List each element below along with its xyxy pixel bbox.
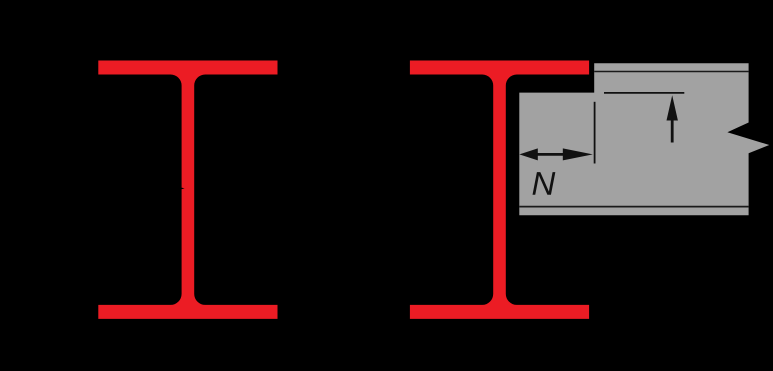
supported beam (gray side view with cope and break line) <box>519 63 769 215</box>
hidden annotation tick on left web <box>176 186 185 190</box>
extension line for N <box>594 102 596 164</box>
right arrowhead of N dimension <box>563 148 593 160</box>
top flange inner line of gray beam <box>594 71 748 73</box>
left arrowhead of N dimension <box>519 148 537 160</box>
annotation line (toe of fillet level) <box>604 92 684 94</box>
bottom flange inner line of gray beam <box>519 206 748 208</box>
up arrow shaft <box>671 118 674 143</box>
label N <box>533 172 556 195</box>
beam W2 (right I-beam cross-section, red) <box>410 61 589 319</box>
up arrow head <box>667 95 678 120</box>
dimension line N shaft <box>535 153 565 156</box>
beam W1 (left I-beam cross-section, red) <box>98 61 277 319</box>
